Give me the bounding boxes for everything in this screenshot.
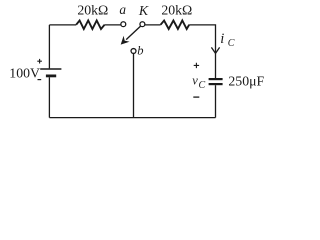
wire left vertical top (corner down to battery) (48, 25, 50, 69)
svg-text:20kΩ: 20kΩ (77, 3, 108, 18)
battery positive long plate (40, 68, 61, 70)
svg-text:100V: 100V (9, 66, 40, 81)
wire battery to bottom-left corner (48, 77, 50, 117)
switch blade (126, 26, 141, 40)
svg-text:K: K (138, 3, 149, 18)
wire R1 to contact a (105, 24, 121, 26)
bottom wire (49, 117, 215, 119)
label minus (battery) (38, 79, 42, 81)
wire middle branch (b down to bottom wire) (133, 53, 135, 117)
label minus (vC) (193, 96, 199, 98)
svg-text:v: v (192, 74, 198, 88)
svg-text:a: a (119, 2, 126, 17)
label + (vC) (194, 63, 199, 68)
svg-text:C: C (228, 38, 235, 49)
switch pivot K (circle) (140, 22, 145, 27)
wire R2 to top-right corner and down to capacitor (189, 25, 215, 78)
switch contact b (circle) (131, 49, 136, 54)
wire top-left horizontal (49, 24, 76, 26)
switch blade arrowhead (121, 36, 130, 45)
resistor R2 (161, 21, 190, 30)
current arrow iC (open barbs on wire) (211, 47, 219, 53)
svg-text:b: b (137, 44, 143, 58)
label + (battery) (37, 59, 42, 64)
capacitor C bottom plate (209, 83, 223, 85)
svg-text:i: i (220, 31, 224, 47)
wire K to R2 (145, 24, 161, 26)
svg-text:20kΩ: 20kΩ (161, 3, 192, 18)
resistor R1 (76, 21, 104, 30)
switch contact a (circle) (121, 22, 126, 27)
capacitor C top plate (209, 78, 223, 80)
battery negative short plate (46, 75, 56, 78)
svg-text:250μF: 250μF (228, 74, 264, 89)
svg-text:C: C (199, 80, 206, 91)
wire capacitor to bottom-right corner (215, 85, 217, 117)
